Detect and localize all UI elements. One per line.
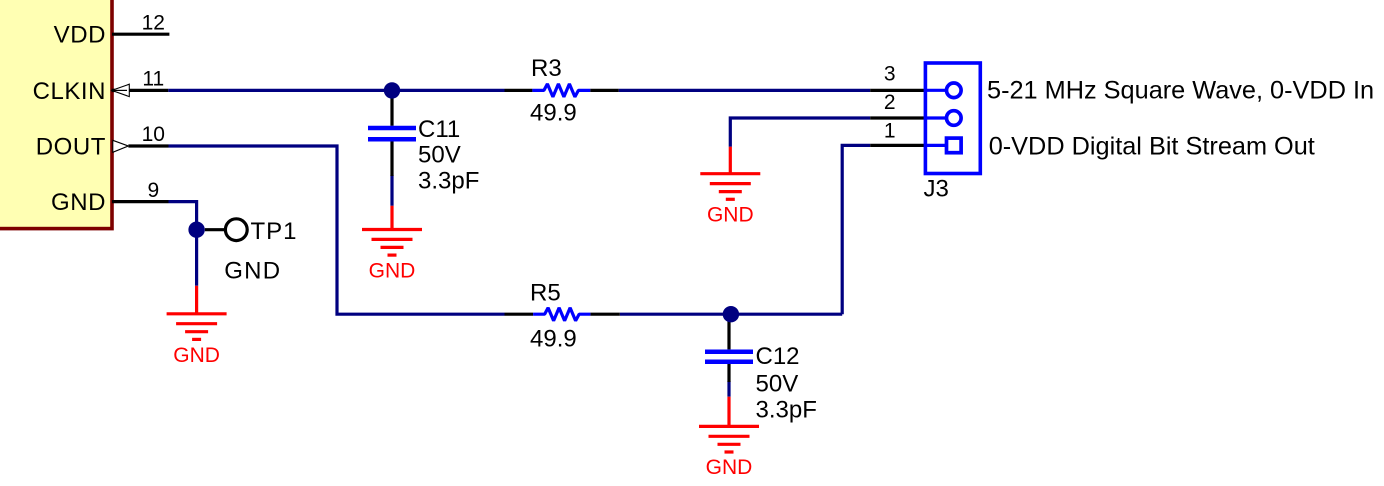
svg-text:C11: C11: [418, 116, 460, 143]
svg-text:0-VDD Digital Bit Stream Out: 0-VDD Digital Bit Stream Out: [989, 133, 1315, 161]
svg-text:12: 12: [142, 12, 165, 35]
svg-text:9: 9: [147, 179, 159, 202]
svg-text:VDD: VDD: [54, 22, 106, 49]
svg-text:J3: J3: [924, 175, 949, 202]
svg-text:49.9: 49.9: [530, 99, 577, 126]
svg-text:CLKIN: CLKIN: [33, 78, 106, 105]
svg-text:GND: GND: [369, 260, 416, 283]
svg-text:GND: GND: [706, 456, 753, 479]
svg-text:R5: R5: [530, 279, 561, 306]
svg-text:11: 11: [142, 68, 164, 91]
svg-text:3.3pF: 3.3pF: [418, 168, 479, 195]
svg-text:R3: R3: [531, 55, 562, 82]
svg-text:GND: GND: [173, 344, 220, 367]
svg-text:TP1: TP1: [251, 218, 298, 245]
svg-text:C12: C12: [756, 343, 800, 370]
svg-text:1: 1: [884, 119, 896, 142]
svg-text:10: 10: [142, 123, 165, 146]
svg-text:3.3pF: 3.3pF: [756, 396, 817, 423]
svg-text:5-21 MHz Square Wave, 0-VDD In: 5-21 MHz Square Wave, 0-VDD In: [987, 77, 1374, 105]
svg-text:50V: 50V: [756, 370, 799, 397]
svg-text:3: 3: [884, 63, 896, 86]
svg-text:GND: GND: [707, 203, 754, 226]
svg-text:2: 2: [884, 91, 896, 114]
svg-text:49.9: 49.9: [530, 326, 577, 353]
svg-text:GND: GND: [224, 258, 281, 285]
svg-text:50V: 50V: [418, 142, 461, 169]
svg-text:GND: GND: [51, 189, 106, 216]
svg-text:DOUT: DOUT: [36, 133, 106, 160]
